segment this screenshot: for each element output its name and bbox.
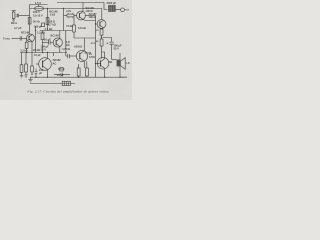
svg-text:100 Ω: 100 Ω bbox=[89, 15, 96, 19]
wire Q1 emitter below rail bbox=[31, 53, 33, 67]
svg-text:25 µF: 25 µF bbox=[57, 73, 64, 77]
wire R6 down bbox=[26, 48, 28, 52]
svg-text:220 V: 220 V bbox=[33, 10, 40, 14]
svg-text:47 Ω: 47 Ω bbox=[91, 42, 96, 45]
wire R8 down to Q5 bbox=[101, 46, 103, 59]
wire R4 tap to C3 bbox=[43, 42, 49, 44]
svg-text:AD161: AD161 bbox=[74, 45, 83, 49]
wire Q3 collector up bbox=[47, 53, 49, 59]
transistor Q2 bbox=[77, 11, 86, 20]
capacitor C3 bbox=[49, 40, 51, 44]
wire C4 to Q6 bbox=[69, 55, 76, 57]
potentiometer P1 bbox=[12, 11, 18, 20]
wire C5 down bbox=[111, 44, 113, 59]
wire R15 stub bbox=[31, 72, 33, 75]
wire Q4 collector to rail bbox=[101, 9, 103, 20]
capacitor C6 bbox=[35, 69, 38, 78]
wire Q2 emitter right bbox=[83, 19, 96, 20]
junction dots bbox=[26, 8, 121, 78]
wire x21.5 down bbox=[21, 53, 23, 65]
fuse F1 on rail bbox=[34, 6, 43, 10]
resistor R13 bbox=[85, 68, 88, 76]
wire rail to lower stage bbox=[20, 52, 66, 54]
svg-text:2000 µF: 2000 µF bbox=[107, 1, 117, 5]
wire base Q3 bbox=[36, 63, 39, 65]
svg-text:AD161: AD161 bbox=[85, 52, 93, 55]
wire bottom rail bbox=[30, 76, 127, 78]
wire Q6 collector up bbox=[74, 38, 96, 51]
capacitor C4 bbox=[68, 54, 70, 58]
transistor Q4 bbox=[97, 20, 106, 29]
svg-text:0,5 Ω: 0,5 Ω bbox=[58, 67, 64, 71]
wire Q1 base divider bbox=[26, 39, 28, 43]
wire vertical x42 bbox=[42, 31, 44, 34]
resistor R10 bbox=[20, 65, 23, 73]
resistor R7 bbox=[100, 29, 103, 35]
svg-text:47 kΩ: 47 kΩ bbox=[66, 24, 73, 28]
svg-text:Toma: Toma bbox=[3, 37, 10, 41]
svg-text:2,2 kΩ: 2,2 kΩ bbox=[21, 50, 28, 52]
wire R3 to Q2 bbox=[74, 15, 77, 17]
transistor Q5 AD162 bbox=[97, 57, 109, 69]
resistor R12 bbox=[77, 68, 80, 76]
svg-text:AC: AC bbox=[53, 62, 57, 66]
tiny value labels bbox=[3, 1, 130, 77]
wire R7-R8 bbox=[101, 35, 103, 39]
wire tap to C5 bbox=[103, 38, 112, 42]
ground (R10) bbox=[20, 76, 24, 78]
fuse F2 bbox=[62, 81, 70, 85]
resistor R14 small bbox=[60, 68, 63, 71]
wire stub bbox=[30, 77, 32, 79]
wire mid rail bbox=[40, 30, 72, 32]
capacitor C1 bbox=[17, 14, 18, 17]
wire speaker top stub bbox=[119, 53, 121, 60]
wire vertical mid-left bbox=[35, 26, 37, 53]
transistor Q1 bbox=[27, 34, 35, 42]
capacitor C5 polarized bbox=[109, 42, 113, 44]
wire vertical x63 bbox=[63, 9, 65, 31]
wire node vertical x95.5 bbox=[95, 16, 97, 78]
svg-text:10 µF: 10 µF bbox=[44, 38, 51, 42]
paper background bbox=[0, 0, 132, 100]
wire x63 to R3 bbox=[64, 15, 68, 17]
wire Q2 out to node bbox=[85, 15, 95, 17]
wire x53 bbox=[53, 53, 55, 57]
wire Q3 emitter down bbox=[47, 70, 49, 78]
wire left of C4 bbox=[66, 31, 68, 57]
svg-text:BC149: BC149 bbox=[21, 31, 30, 35]
wire R4 down bbox=[42, 40, 44, 53]
wire to speaker left bbox=[112, 59, 117, 61]
svg-text:25 V: 25 V bbox=[41, 48, 47, 52]
svg-text:Micro: Micro bbox=[11, 23, 18, 25]
wire Q7 collector up bbox=[59, 31, 61, 39]
wire R12 bottom bbox=[78, 76, 80, 77]
wire C3 to Q7 base bbox=[50, 42, 53, 44]
ground (return) bbox=[28, 80, 33, 83]
resistor R11 bbox=[25, 64, 28, 72]
wire Q5 collector up bbox=[102, 52, 105, 59]
wire top-right corner bbox=[104, 3, 108, 10]
svg-text:50 Hz: 50 Hz bbox=[33, 20, 40, 24]
svg-text:4,7 kΩ: 4,7 kΩ bbox=[45, 27, 53, 31]
resistor R4 bbox=[41, 33, 44, 40]
svg-text:4,7 kΩ: 4,7 kΩ bbox=[62, 47, 70, 51]
wire Q1 emitter down bbox=[31, 41, 33, 52]
ground (R11) bbox=[24, 75, 28, 77]
svg-text:22 kΩ: 22 kΩ bbox=[33, 48, 40, 52]
svg-text:1,2 kΩ: 1,2 kΩ bbox=[37, 31, 45, 35]
speaker LS bbox=[117, 58, 126, 70]
svg-text:kΩ: kΩ bbox=[66, 43, 70, 47]
svg-text:AD162: AD162 bbox=[53, 58, 62, 62]
svg-text:10 µF: 10 µF bbox=[34, 53, 41, 57]
svg-text:4,7k: 4,7k bbox=[66, 9, 72, 13]
wire R11 gnd stub bbox=[25, 72, 27, 75]
output jack J1 bbox=[121, 8, 129, 12]
wire R12 top bbox=[78, 64, 80, 68]
switch S1 bbox=[42, 23, 45, 26]
wire speaker bottom bbox=[120, 66, 127, 77]
transistor Q6 AD161 bbox=[76, 50, 87, 61]
transistor Q3 driver bbox=[39, 58, 52, 71]
wire C1 to node bbox=[19, 15, 30, 17]
svg-text:µF: µF bbox=[39, 71, 42, 75]
capacitor C8 bbox=[54, 73, 70, 77]
transistor Q7 bbox=[53, 38, 62, 47]
capacitor C7 electrolytic block bbox=[108, 5, 115, 12]
svg-text:1,5 A: 1,5 A bbox=[35, 1, 41, 5]
wire Q6 emitter down bbox=[83, 61, 85, 68]
wire vertical x47 bbox=[47, 9, 49, 31]
wire R5 bottom bbox=[73, 32, 75, 38]
resistor R2 bbox=[46, 18, 49, 25]
svg-text:25 V: 25 V bbox=[114, 47, 120, 51]
wire second rail bbox=[30, 8, 102, 10]
svg-text:LS: LS bbox=[126, 61, 130, 65]
wire input to C2 bbox=[12, 38, 21, 40]
svg-text:Fig. 2.17. Circuito del amplif: Fig. 2.17. Circuito del amplificador de … bbox=[26, 90, 109, 94]
wire Q2 collector to top rail bbox=[82, 3, 84, 12]
resistor R6 bbox=[25, 42, 28, 48]
wire C2 to Q1 base bbox=[22, 38, 27, 40]
resistor R1 (collector) bbox=[28, 18, 31, 25]
wire Q4 emitter to chain bbox=[102, 28, 104, 29]
wire top rail +V bbox=[57, 2, 104, 4]
svg-text:1,7 kΩ: 1,7 kΩ bbox=[48, 23, 56, 27]
wire Q5 emitter down bbox=[104, 68, 106, 77]
svg-text:AD: AD bbox=[109, 60, 113, 64]
resistor R8 bbox=[100, 39, 103, 46]
svg-text:5,6 kΩ: 5,6 kΩ bbox=[78, 26, 86, 30]
wire R10 gnd stub bbox=[21, 72, 23, 75]
ground (pot) bbox=[12, 20, 15, 22]
wire Q7 emitter down bbox=[59, 47, 61, 53]
plus mark C5 bbox=[106, 42, 108, 44]
wire R13 bbox=[86, 61, 88, 77]
wire x26 down bbox=[25, 53, 27, 65]
svg-text:BC148: BC148 bbox=[51, 34, 60, 38]
svg-text:1 kΩ: 1 kΩ bbox=[50, 13, 56, 17]
wire Q4 base bbox=[96, 23, 98, 25]
svg-text:100 µF: 100 µF bbox=[34, 25, 43, 29]
resistor R5 feedback bbox=[73, 25, 76, 32]
wire C7 to jack bbox=[115, 9, 120, 11]
capacitor C2 (input coupling) bbox=[20, 36, 21, 40]
resistor R3 (horizontal) bbox=[67, 13, 74, 18]
resistor R15 bbox=[31, 66, 34, 72]
svg-text:4,7 µF: 4,7 µF bbox=[14, 26, 22, 30]
wire Q5 base bbox=[96, 63, 101, 65]
svg-text:0,5Ω: 0,5Ω bbox=[89, 55, 95, 59]
wire fuse stub bbox=[38, 5, 40, 7]
svg-text:12+12 V: 12+12 V bbox=[33, 14, 43, 18]
wire lower return bbox=[30, 83, 75, 85]
wire vertical from rail to input stage bbox=[30, 5, 48, 35]
wire R5 top bbox=[73, 17, 75, 25]
